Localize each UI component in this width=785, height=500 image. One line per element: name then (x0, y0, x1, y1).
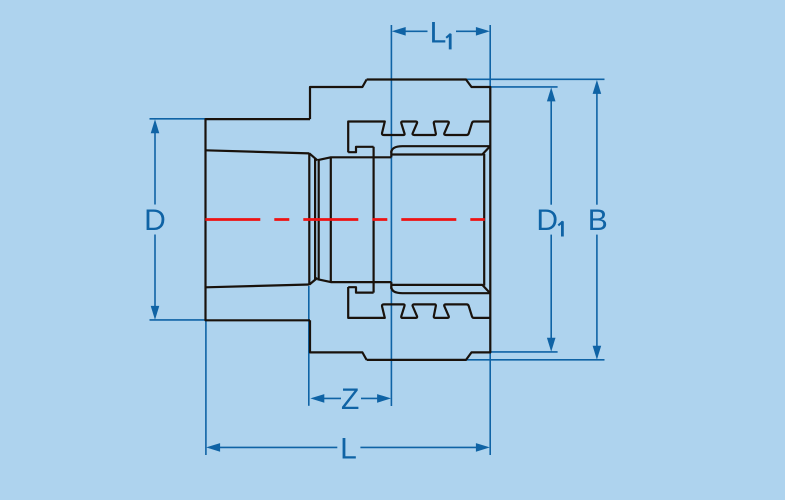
dimension D1 line (550, 93, 552, 346)
arrow L left (206, 443, 220, 452)
arrow L right (476, 443, 490, 452)
nut thread band bottom (348, 287, 490, 318)
body bead face (373, 147, 375, 293)
dimension L line (212, 446, 484, 448)
body socket bottom face (308, 153, 310, 285)
dimension L1 extension line left / Z right extension (390, 25, 392, 406)
body cone chamfer bottom (309, 278, 317, 285)
svg-text:B: B (588, 204, 608, 237)
dimension B extension lines (466, 79, 605, 360)
body cone base edge (330, 157, 332, 282)
dimension L1 line (398, 30, 483, 32)
svg-text:D: D (536, 204, 558, 237)
dimension D line (154, 125, 156, 314)
svg-text:L: L (430, 17, 447, 50)
body left outline (206, 119, 311, 320)
sleeve chamfer bottom (391, 285, 489, 293)
dimension L extension line left (205, 321, 207, 455)
nut claw bottom (348, 287, 373, 292)
arrow D1 up (547, 87, 556, 101)
dimension L1 extension line right / L right extension (489, 25, 491, 455)
arrow B down (593, 346, 602, 360)
arrowheads (151, 27, 602, 452)
svg-text:D: D (144, 204, 166, 237)
sleeve end face (483, 154, 485, 286)
arrow B up (593, 80, 602, 94)
body cone chamfer top (309, 153, 317, 160)
arrow Z left (310, 394, 324, 403)
body nose top (317, 157, 391, 160)
sleeve mouth face bottom (390, 282, 392, 289)
body cone edge line 2 (318, 160, 320, 278)
arrow D up (151, 119, 160, 133)
arrow D1 down (547, 338, 556, 352)
sleeve outer top (391, 146, 489, 153)
sleeve chamfer top (391, 147, 489, 155)
nut claw top (348, 147, 373, 152)
centerline (red) (205, 218, 485, 221)
body shoulder step top (310, 80, 367, 120)
dimension Z line (316, 397, 385, 399)
body cone edge line 1 (314, 158, 316, 280)
body socket bore bottom (206, 285, 310, 288)
body socket bore top (206, 150, 310, 153)
svg-text:L: L (340, 433, 357, 466)
union nut outline (367, 80, 491, 360)
arrow Z right (377, 394, 391, 403)
arrow L1 left (392, 27, 406, 36)
sleeve mouth face top (390, 151, 392, 158)
nut thread band top (348, 122, 490, 153)
arrow D down (151, 306, 160, 320)
dimension D1 extension lines (490, 87, 557, 352)
dimension Z extension line left (308, 286, 310, 406)
sleeve outer bottom (391, 287, 489, 294)
dimension D extension lines (150, 119, 206, 320)
body shoulder step bottom (310, 320, 367, 360)
svg-text:Z: Z (341, 383, 359, 416)
arrow L1 right (476, 27, 490, 36)
dimension B line (596, 86, 598, 354)
body nose bottom (317, 279, 391, 282)
